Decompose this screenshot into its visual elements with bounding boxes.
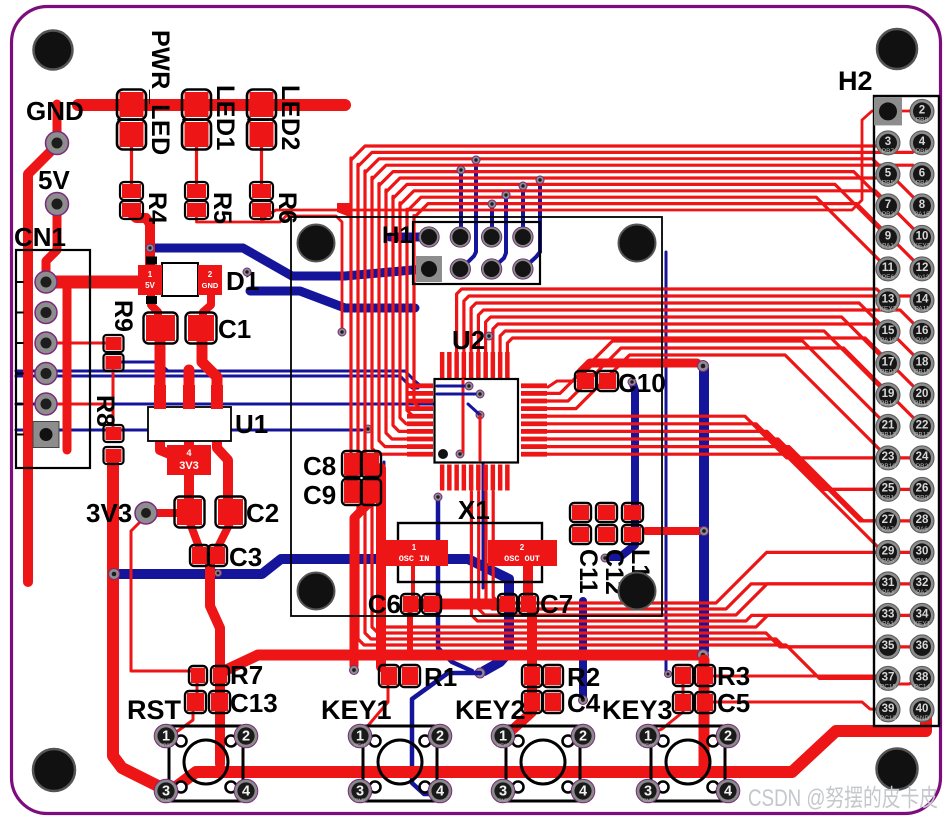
svg-text:H2: H2 <box>838 66 873 96</box>
svg-text:C3: C3 <box>229 542 262 572</box>
svg-text:22: 22 <box>916 419 929 431</box>
resistor R6 <box>250 182 301 224</box>
svg-text:35: 35 <box>882 640 895 652</box>
svg-text:21: 21 <box>882 419 895 431</box>
svg-text:31: 31 <box>882 577 895 589</box>
svg-text:KEY3: KEY3 <box>642 743 654 748</box>
wire C8 C9 bars <box>352 472 371 484</box>
svg-text:40: 40 <box>916 703 929 715</box>
mounting hole module top-right <box>619 225 656 262</box>
header H2 pins 25-26 <box>876 477 934 501</box>
wire D1 pad2 to C1 <box>203 295 211 318</box>
watermark <box>748 785 938 812</box>
svg-text:25: 25 <box>882 482 895 494</box>
svg-text:14: 14 <box>916 293 929 305</box>
svg-text:PE6: PE6 <box>882 274 895 281</box>
resistor R1 <box>379 662 457 692</box>
wire LED cathodes to resistors <box>132 145 262 184</box>
module outline <box>291 217 662 616</box>
svg-text:6: 6 <box>919 167 925 179</box>
wire U2 internal redraw <box>437 380 480 460</box>
svg-text:GND: GND <box>161 798 172 803</box>
svg-text:27: 27 <box>882 514 895 526</box>
wire C6 pad1 to bus <box>407 614 413 655</box>
wire blue KEY1 to pad4 <box>412 673 480 794</box>
wire RST pad1 link <box>168 710 193 736</box>
svg-text:C13: C13 <box>230 688 278 718</box>
mounting hole module top-left <box>298 225 335 262</box>
svg-text:PC13: PC13 <box>880 715 897 722</box>
wire blue U2 internal 2 <box>437 393 475 396</box>
svg-text:KEY1: KEY1 <box>321 695 392 725</box>
mounting hole top-left <box>34 31 73 70</box>
svg-text:4: 4 <box>436 784 444 800</box>
crystal X1 <box>380 495 557 582</box>
wire via to KEY3 column <box>699 660 710 766</box>
wire R1 to KEY1 pad1 <box>362 684 388 733</box>
svg-text:C1: C1 <box>218 314 251 344</box>
wire GND bus mid to R7 <box>224 655 698 671</box>
resistor R9 <box>104 300 138 371</box>
wire blue KEY1 branch <box>434 493 472 671</box>
svg-text:X1: X1 <box>458 495 490 525</box>
wire C1 pad1 to U1 pin1 <box>155 339 166 407</box>
svg-text:3: 3 <box>885 136 891 148</box>
wire 5V rail top <box>78 99 345 111</box>
header H2 pins 29-30 <box>876 540 934 564</box>
svg-text:4: 4 <box>579 784 587 800</box>
svg-text:H1: H1 <box>382 222 413 249</box>
svg-text:PB4: PB4 <box>916 179 929 186</box>
svg-text:29: 29 <box>882 545 895 557</box>
svg-text:C11: C11 <box>574 549 602 594</box>
svg-text:19: 19 <box>882 388 895 400</box>
svg-text:C10: C10 <box>618 368 666 398</box>
header H2 pins 23-24 <box>876 446 934 470</box>
connector CN1 <box>14 222 90 468</box>
via GND <box>46 132 69 155</box>
svg-text:PC14: PC14 <box>914 683 931 690</box>
svg-text:9: 9 <box>885 230 891 242</box>
wire C10 to via thick <box>581 361 709 373</box>
header H2 pins 13-14 <box>876 288 934 312</box>
svg-text:PA15: PA15 <box>914 211 930 218</box>
svg-text:D1: D1 <box>226 266 259 296</box>
svg-text:OSC IN: OSC IN <box>399 554 430 564</box>
header H2 pins 11-12 <box>876 257 934 281</box>
capacitor C5 <box>673 688 750 718</box>
svg-text:PWR_LED: PWR_LED <box>146 30 174 156</box>
wire blue R9 stub <box>122 362 168 371</box>
wire blue H1 pin verticals <box>461 162 540 269</box>
wire blue H1 row1 stubs <box>390 233 424 242</box>
resistor R2 <box>522 662 600 692</box>
svg-text:GND: GND <box>202 281 219 290</box>
svg-text:R3: R3 <box>717 661 750 691</box>
svg-text:PA4: PA4 <box>916 557 928 564</box>
wire bundle C U2-right to H2 rows11-15 <box>545 341 922 552</box>
wire blue C10 right branch <box>601 378 636 562</box>
via 5V <box>46 193 69 216</box>
svg-text:8: 8 <box>919 199 926 211</box>
svg-text:37: 37 <box>882 671 895 683</box>
via GND mid via <box>698 650 709 661</box>
svg-text:PB2: PB2 <box>916 463 929 470</box>
wire CN1 pin5 to R8 <box>46 404 113 429</box>
svg-text:GND: GND <box>643 798 654 803</box>
capacitor C13 <box>185 688 278 718</box>
svg-text:PB14: PB14 <box>880 400 896 407</box>
svg-text:4: 4 <box>724 784 732 800</box>
wire C2 to C3 cross <box>190 523 230 555</box>
svg-text:3V3: 3V3 <box>86 498 132 528</box>
svg-text:C2: C2 <box>246 498 279 528</box>
wire C5 net to H2 pin39 <box>714 702 886 710</box>
inductor L1 <box>622 503 654 578</box>
header H2 pins 1-2 <box>874 97 934 125</box>
svg-text:PB1: PB1 <box>882 494 895 501</box>
wire bundle B U2-top to H2 rows7-10 <box>457 289 922 395</box>
svg-text:3V3: 3V3 <box>179 460 199 472</box>
svg-text:17: 17 <box>882 356 895 368</box>
via U2 internal vias <box>456 332 493 458</box>
svg-text:C4: C4 <box>567 688 601 718</box>
wire KEY3 pads link <box>652 683 683 733</box>
svg-text:PA11: PA11 <box>915 305 930 312</box>
wire L1 to via <box>646 527 709 536</box>
svg-text:KEY1: KEY1 <box>914 620 931 627</box>
capacitor C4 <box>522 688 601 718</box>
svg-text:CN1: CN1 <box>14 222 66 252</box>
wire blue thick D1 GND diagonal <box>250 291 415 308</box>
wire KEY1 feed vertical <box>376 468 386 667</box>
svg-text:PB0: PB0 <box>916 494 929 501</box>
svg-text:C6: C6 <box>368 589 401 619</box>
svg-text:R9: R9 <box>109 300 137 332</box>
header H2 pins 35-36 <box>876 635 934 659</box>
svg-text:PB6: PB6 <box>916 148 929 155</box>
wire blue U2 internal 1 <box>437 385 464 388</box>
svg-text:2: 2 <box>919 104 925 116</box>
wire R6 long net to H2 pin2 <box>262 111 917 222</box>
svg-text:11: 11 <box>882 262 895 274</box>
header H2 pins 39-40 <box>876 698 934 722</box>
wire CN1 inner 5V riser <box>63 284 72 450</box>
svg-text:CSDN @努摆的皮卡皮: CSDN @努摆的皮卡皮 <box>748 785 938 812</box>
svg-text:23: 23 <box>882 451 895 463</box>
wire 3V3 via to C2 <box>152 509 178 517</box>
wire C1 pad2 to U1 pin3 <box>202 339 217 407</box>
svg-text:NRST: NRST <box>160 743 173 748</box>
svg-text:PA5: PA5 <box>882 557 894 564</box>
svg-text:PC15: PC15 <box>880 683 897 690</box>
wire U1 tab to C2 pad1 <box>184 473 194 500</box>
svg-text:PB8: PB8 <box>916 116 929 123</box>
svg-text:5V: 5V <box>145 281 155 290</box>
wire blue OSC to X1 right <box>482 462 485 588</box>
resistor R3 <box>673 661 750 691</box>
wire D1 pad1 to C1 <box>151 295 158 318</box>
svg-text:R5: R5 <box>208 192 236 224</box>
via H1 blue vias <box>457 156 544 208</box>
wire CN1 pin1 to D1 <box>46 276 146 289</box>
wire U1 pins to tab <box>160 438 228 500</box>
header H2 pins 27-28 <box>876 509 934 533</box>
svg-text:PB7: PB7 <box>882 148 895 155</box>
button KEY3 <box>602 695 740 803</box>
capacitor C2 <box>175 497 280 529</box>
svg-text:R8: R8 <box>91 395 119 427</box>
svg-text:KEY3: KEY3 <box>602 695 673 725</box>
wire CN1 pin6 GND stub <box>28 430 46 438</box>
button RST <box>127 695 258 803</box>
svg-text:PA3: PA3 <box>882 589 894 596</box>
svg-text:1: 1 <box>148 270 153 279</box>
svg-text:12: 12 <box>916 262 929 274</box>
svg-text:30: 30 <box>916 545 929 557</box>
svg-text:R7: R7 <box>230 660 263 690</box>
mounting hole bottom-left <box>33 749 75 791</box>
svg-text:KEY1: KEY1 <box>354 743 366 748</box>
capacitor C12 <box>596 503 628 595</box>
wire R3 net to H2 pin37 <box>714 676 888 678</box>
wire blue thick GND bottom bus <box>114 559 509 671</box>
wire R4 to D1 pad1 <box>130 212 150 268</box>
svg-text:2: 2 <box>242 729 250 745</box>
svg-text:2: 2 <box>579 729 587 745</box>
svg-text:C7: C7 <box>540 589 573 619</box>
via GND bus blue via redraw <box>109 569 120 580</box>
svg-text:PB13: PB13 <box>880 431 896 438</box>
LED LED1 <box>182 85 239 151</box>
wire blue thick C10 to GND via column <box>699 368 709 651</box>
svg-text:18: 18 <box>916 356 929 368</box>
wire 5V via to CN1 pin1 <box>46 207 57 282</box>
svg-text:4: 4 <box>919 136 926 148</box>
resistor R4 <box>120 182 171 224</box>
LED PWR_LED <box>117 30 174 156</box>
header H2 pins 5-6 <box>876 162 934 186</box>
svg-text:GND: GND <box>26 96 84 126</box>
mounting hole top-right <box>877 29 917 69</box>
header H2 pins 21-22 <box>876 414 934 438</box>
wire C6 C7 bridge <box>418 599 507 610</box>
wire 3V3 to R7 thin <box>131 519 192 671</box>
svg-text:34: 34 <box>916 608 929 620</box>
wire blue PA line y404 into U2 <box>16 404 479 414</box>
svg-text:C8: C8 <box>303 451 336 481</box>
header H2 pins 17-18 <box>876 351 934 375</box>
svg-text:PB5: PB5 <box>882 179 895 186</box>
svg-text:2: 2 <box>436 729 444 745</box>
svg-text:33: 33 <box>882 608 895 620</box>
wire blue thin module right edge <box>665 252 672 678</box>
wire blue KEY2 vertical <box>579 601 588 705</box>
header H2 pins 37-38 <box>876 666 934 690</box>
header H2 <box>838 66 939 726</box>
wire C7 to KEY2 feed <box>505 566 532 734</box>
wire bundle E U2-bottom to H2 rows15-19 <box>358 492 922 678</box>
wire blue line y430 to via <box>16 425 372 433</box>
diode D1 <box>138 257 259 305</box>
header H2 pins 31-32 <box>876 572 934 596</box>
via R4 via <box>146 244 154 252</box>
LED LED2 <box>247 85 304 151</box>
svg-text:PA1: PA1 <box>882 620 894 627</box>
svg-text:PA1: PA1 <box>882 242 894 249</box>
via H1 blue vias top <box>457 156 544 208</box>
wire X1 pad1 to C6 <box>411 564 415 598</box>
svg-text:10: 10 <box>916 230 929 242</box>
svg-text:4: 4 <box>242 784 250 800</box>
wire C3 to R7 C13 column <box>210 562 220 764</box>
svg-text:PB12: PB12 <box>914 431 930 438</box>
svg-text:13: 13 <box>882 293 895 305</box>
svg-text:PB15: PB15 <box>914 368 930 375</box>
label 5V <box>38 165 70 195</box>
header H2 pins 33-34 <box>876 603 934 627</box>
svg-text:KEY2: KEY2 <box>497 743 509 748</box>
svg-text:26: 26 <box>916 482 929 494</box>
svg-text:16: 16 <box>916 325 929 337</box>
wire R5 net to via <box>197 203 353 336</box>
svg-text:7: 7 <box>885 199 891 211</box>
svg-text:C5: C5 <box>717 688 750 718</box>
svg-text:GND: GND <box>355 798 366 803</box>
svg-text:PA9: PA9 <box>916 337 928 344</box>
svg-text:KEY3: KEY3 <box>914 242 931 249</box>
header H1 <box>382 222 540 284</box>
resistor R5 <box>185 182 236 224</box>
svg-text:24: 24 <box>916 451 929 463</box>
resistor R8 <box>91 395 124 464</box>
mounting hole module bottom-right <box>619 573 656 610</box>
resistor R7 <box>189 660 263 690</box>
svg-text:5: 5 <box>885 167 892 179</box>
header H2 pins 19-20 <box>876 383 934 407</box>
svg-text:5V: 5V <box>38 165 70 195</box>
svg-text:2: 2 <box>520 543 525 552</box>
svg-text:PA2: PA2 <box>916 589 928 596</box>
wire blue thick D1 to H1 pin <box>152 248 425 276</box>
wire CN1 pin3 to R9 <box>46 342 106 345</box>
svg-text:36: 36 <box>916 640 929 652</box>
label 3V3 <box>86 498 132 528</box>
wire C10 stub to U2 <box>548 381 575 387</box>
svg-text:KEY2: KEY2 <box>880 305 897 312</box>
svg-text:R1: R1 <box>424 662 457 692</box>
mounting hole module bottom-left <box>298 573 335 610</box>
svg-text:KEY2: KEY2 <box>455 695 526 725</box>
header H2 pins 7-8 <box>876 194 934 218</box>
svg-text:PB3: PB3 <box>882 211 895 218</box>
svg-text:38: 38 <box>916 671 929 683</box>
wire U2 internal nets <box>463 380 480 460</box>
svg-text:Vo12: Vo12 <box>915 274 930 281</box>
header H2 pins 9-10 <box>876 225 934 249</box>
wire bundle A U2-left to H2 rows2-6 <box>351 143 922 464</box>
svg-text:U2: U2 <box>452 325 485 355</box>
mounting hole bottom-right <box>877 749 918 790</box>
capacitor C3 <box>190 542 262 572</box>
via KEY1 blue via <box>475 668 485 678</box>
svg-text:OSC OUT: OSC OUT <box>504 554 540 564</box>
svg-text:PA10: PA10 <box>880 337 896 344</box>
svg-text:GND: GND <box>498 798 509 803</box>
wire GND main bus bottom <box>113 460 926 790</box>
svg-text:PE01: PE01 <box>880 368 896 375</box>
regulator U1 <box>148 385 268 475</box>
svg-text:C9: C9 <box>303 480 336 510</box>
svg-text:39: 39 <box>882 703 895 715</box>
svg-text:PB13: PB13 <box>914 400 930 407</box>
header H2 pins 3-4 <box>876 131 934 155</box>
microcontroller U2 <box>407 325 547 491</box>
label GND <box>26 96 84 126</box>
svg-text:32: 32 <box>916 577 929 589</box>
wire R7 pads link <box>196 683 199 694</box>
svg-text:28: 28 <box>916 514 929 526</box>
svg-text:R4: R4 <box>143 192 171 224</box>
button KEY2 <box>455 695 595 803</box>
svg-text:PB10: PB10 <box>880 463 896 470</box>
wire C9 to KEY feed <box>350 501 372 675</box>
wire H2 pin37 to pin38 link <box>893 680 917 684</box>
svg-text:20: 20 <box>916 388 929 400</box>
wire blue OSC to X1 left <box>383 462 386 588</box>
wire R9 to R8 link <box>112 368 115 404</box>
button KEY1 <box>321 695 452 803</box>
capacitor C9 <box>303 479 381 510</box>
svg-text:U1: U1 <box>235 409 268 439</box>
via D1 label via <box>243 268 251 276</box>
capacitor C10 <box>575 368 666 398</box>
svg-text:GND: GND <box>915 715 930 722</box>
via blue bus left end <box>109 569 222 580</box>
capacitor C1 <box>144 313 252 345</box>
via 3V3 <box>135 502 157 524</box>
header H2 pins 15-16 <box>876 320 934 344</box>
capacitor C11 <box>570 503 602 594</box>
svg-text:RST: RST <box>127 695 182 725</box>
wire blue CN1 bus y371 <box>16 371 421 386</box>
wire GND via to left rail <box>28 146 56 582</box>
wire blue CN1 bus y376 <box>16 376 418 388</box>
svg-text:4: 4 <box>186 448 191 458</box>
svg-text:R6: R6 <box>273 192 301 224</box>
capacitor C7 <box>498 589 573 619</box>
svg-text:PA7: PA7 <box>882 526 894 533</box>
wire U1 pin2 riser <box>184 370 195 410</box>
svg-text:2: 2 <box>208 270 213 279</box>
svg-text:PA6: PA6 <box>916 526 928 533</box>
svg-text:1: 1 <box>412 543 417 552</box>
svg-text:15: 15 <box>882 325 895 337</box>
wire GND via riser <box>53 104 62 140</box>
capacitor C6 <box>368 589 441 619</box>
svg-text:LED1: LED1 <box>211 85 239 151</box>
svg-text:LED2: LED2 <box>276 85 304 151</box>
via U2 vias redraw <box>456 382 484 458</box>
svg-text:2: 2 <box>724 729 732 745</box>
capacitor C8 <box>303 451 381 481</box>
